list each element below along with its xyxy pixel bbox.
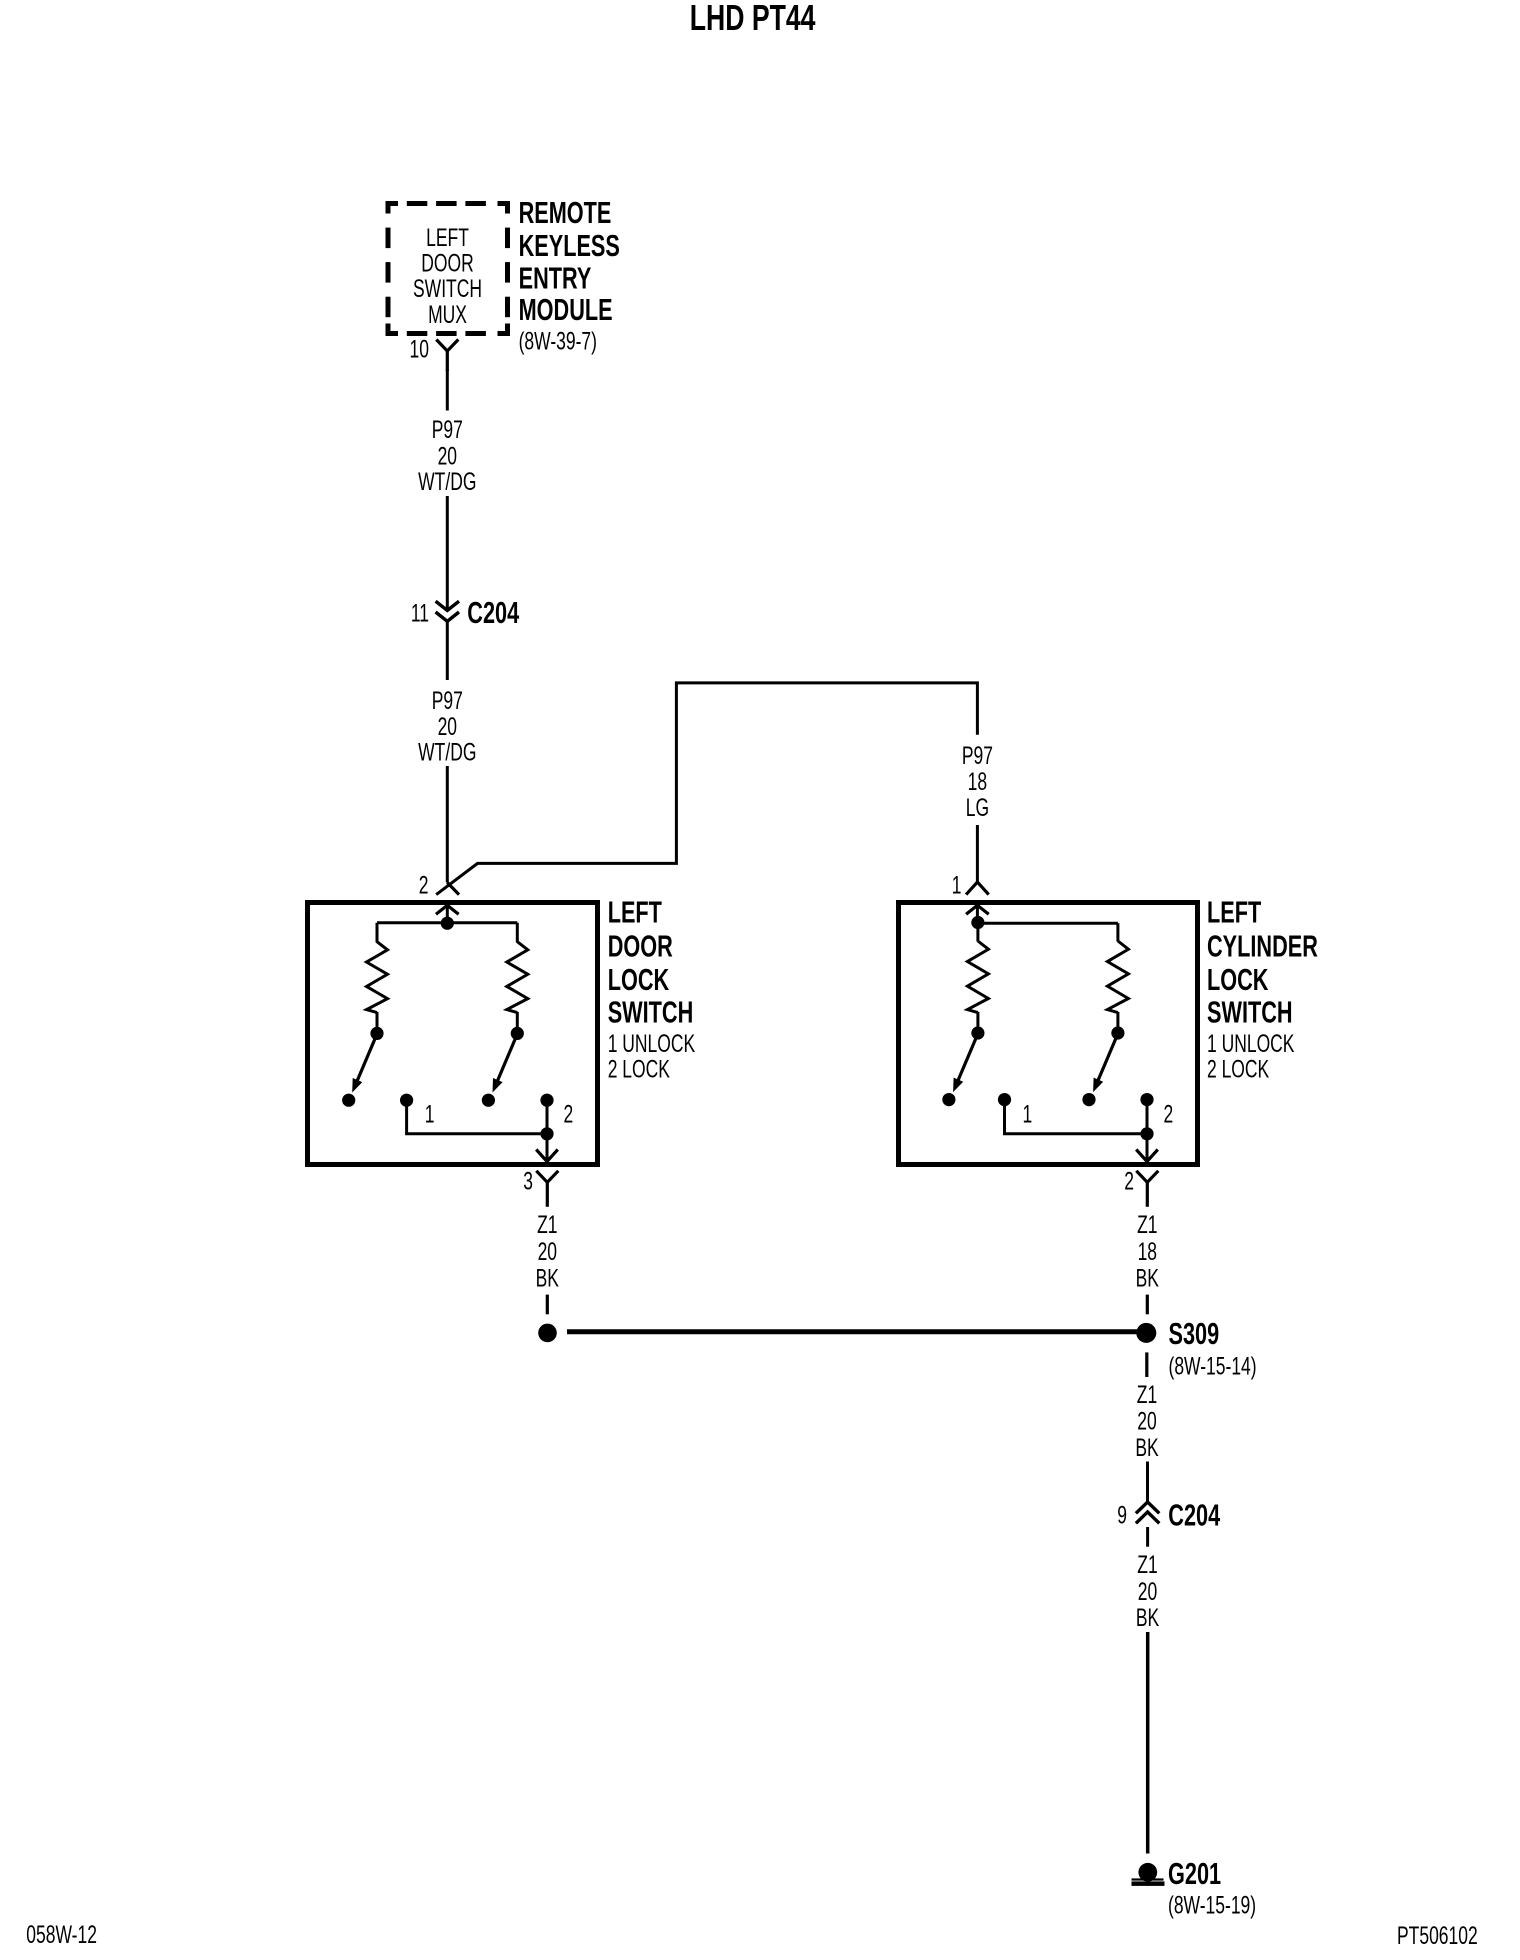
svg-text:CYLINDER: CYLINDER [1207,929,1318,964]
svg-text:2: 2 [1124,1166,1134,1195]
wire P97 below label to C204 [446,496,449,610]
pin 1 internal terminal (chevron + stub) [966,905,989,918]
contact 1 terminal dot (right box) [998,1093,1011,1106]
svg-text:LEFT: LEFT [426,223,469,252]
inline connector C204 pin 11 [411,595,519,630]
svg-text:20: 20 [538,1237,557,1266]
node: splice S309 [1136,1323,1156,1343]
node: pin 2 junction (right box) [1140,1127,1153,1140]
svg-text:P97: P97 [962,741,993,770]
svg-text:20: 20 [438,712,457,741]
svg-text:11: 11 [411,598,429,627]
svg-text:Z1: Z1 [537,1210,557,1239]
internal wire common bus (right box) [978,922,1118,925]
wire label Z1 20 BK (bottom) [1136,1550,1160,1632]
wire Z1 to C204 pin 9 [1146,1462,1149,1502]
svg-text:18: 18 [968,767,987,796]
inline connector C204 pin 9 [1117,1497,1220,1532]
svg-text:Z1: Z1 [1137,1210,1157,1239]
node: left resistor lower junction [370,1027,383,1040]
switch wiper right (left box) [493,1034,518,1093]
contact 1 terminal dot (left box) [400,1094,413,1107]
svg-text:Z1: Z1 [1137,1380,1157,1409]
svg-text:WT/DG: WT/DG [418,737,476,766]
node: common junction right switch [971,916,984,929]
svg-text:SWITCH: SWITCH [608,995,694,1030]
contact dot (wiper rest, left, right box) [942,1093,955,1106]
label G201 (8W-15-19) [1168,1856,1256,1919]
title LHD PT44 [690,0,816,38]
svg-text:1: 1 [1023,1099,1033,1128]
svg-text:LG: LG [966,793,989,822]
svg-text:MUX: MUX [428,300,467,329]
left cylinder lock switch box [899,903,1198,1165]
svg-text:(8W-15-19): (8W-15-19) [1168,1890,1256,1919]
label: LEFT DOOR LOCK SWITCH legend [608,895,696,1083]
pin 1 of left cylinder lock switch [952,871,989,900]
wire P97 pin10 to C204 [446,369,449,411]
wire Z1 below S309 stub [1145,1352,1148,1377]
pin 2 internal terminal (chevron + stub) [436,905,459,918]
ground G201 symbol [1132,1863,1165,1886]
svg-text:BK: BK [1136,1263,1160,1292]
switch wiper left (left box) [352,1034,377,1093]
svg-text:KEYLESS: KEYLESS [519,228,620,263]
wire label Z1 20 BK (below S309) [1135,1380,1159,1462]
svg-text:2: 2 [1164,1099,1174,1128]
pin 10 of keyless module [410,334,459,371]
wire P97 below C204 [446,622,449,681]
switch wiper left (right box) [953,1034,978,1093]
svg-text:2 LOCK: 2 LOCK [1207,1054,1270,1083]
wire label Z1 20 BK (left) [536,1210,560,1292]
svg-text:ENTRY: ENTRY [519,261,592,296]
internal wire common bus (left box) [377,921,517,924]
svg-text:MODULE: MODULE [519,292,613,327]
wire label P97 20 WT/DG (upper) [418,415,476,496]
node: splice junction left [538,1324,557,1343]
svg-text:LOCK: LOCK [608,962,670,997]
svg-text:058W-12: 058W-12 [26,1920,97,1949]
wire: splice bus S309 [567,1329,1140,1334]
svg-text:9: 9 [1117,1500,1127,1529]
resistor right (lock) left box [507,923,528,1028]
internal wire contact1 to pin3 (left box) [407,1100,547,1134]
svg-text:G201: G201 [1168,1856,1221,1891]
wire label P97 18 LG [962,741,993,822]
svg-text:1: 1 [425,1099,435,1128]
svg-text:LEFT: LEFT [608,895,663,930]
svg-text:2: 2 [564,1099,574,1128]
svg-text:BK: BK [536,1263,560,1292]
switch wiper right (right box) [1093,1034,1118,1093]
svg-text:LHD PT44: LHD PT44 [690,0,816,38]
internal wire contact to pin 2 exit (right box) [1136,1100,1158,1162]
contact dot (wiper rest, right, left box) [482,1094,495,1107]
pin 2 of left door lock switch [419,871,459,900]
svg-text:P97: P97 [432,415,463,444]
footer sheet number 058W-12 [26,1920,97,1949]
node: left resistor lower junction (right box) [971,1026,984,1039]
contact dot (wiper rest, right, right box) [1082,1093,1095,1106]
svg-text:Z1: Z1 [1137,1550,1157,1579]
internal wire contact1 to pin2 (right box) [1005,1100,1148,1134]
left door lock switch box [308,903,598,1165]
resistor right (lock) right box [1107,923,1128,1028]
svg-text:LOCK: LOCK [1207,962,1269,997]
svg-text:1: 1 [952,871,962,900]
svg-text:DOOR: DOOR [608,929,673,964]
node: pin 3 junction (left box) [540,1127,553,1140]
resistor left (unlock) left box [367,923,388,1028]
label: REMOTE KEYLESS ENTRY MODULE (8W-39-7) [519,195,620,355]
svg-text:REMOTE: REMOTE [519,195,612,230]
resistor left (unlock) right box [967,923,988,1029]
svg-text:2 LOCK: 2 LOCK [608,1054,671,1083]
node: right resistor lower junction (right box) [1111,1026,1124,1039]
svg-text:P97: P97 [432,686,463,715]
label 1 (left box) [425,1099,435,1128]
svg-text:BK: BK [1135,1433,1159,1462]
svg-text:WT/DG: WT/DG [418,467,476,496]
svg-text:SWITCH: SWITCH [1207,995,1293,1030]
wire P97 18 LG into cylinder switch [976,825,979,882]
wire Z1 below C204 [1146,1527,1149,1547]
label: LEFT CYLINDER LOCK SWITCH legend [1207,895,1318,1083]
svg-text:PT506102: PT506102 [1397,1921,1478,1950]
svg-text:C204: C204 [467,595,519,630]
svg-text:(8W-15-14): (8W-15-14) [1169,1351,1257,1380]
svg-text:3: 3 [523,1166,533,1195]
node: common junction left switch [441,917,454,930]
svg-text:LEFT: LEFT [1207,895,1262,930]
wire branch P97 to right (node to cylinder switch) [436,683,977,895]
svg-text:10: 10 [410,334,429,363]
footer drawing number PT506102 [1397,1921,1478,1950]
label 2 (right box) [1164,1099,1174,1128]
contact dot (wiper rest, left) [342,1094,355,1107]
svg-text:2: 2 [419,871,429,900]
module: LEFT DOOR SWITCH MUX (dashed box) [386,201,511,336]
wire Z1 to ground G201 [1146,1632,1150,1854]
label S309 (8W-15-14) [1169,1316,1257,1380]
svg-text:BK: BK [1136,1603,1160,1632]
wire P97 into left door lock switch [446,766,449,883]
contact 2 terminal dot (left box) [540,1094,553,1107]
wire label Z1 18 BK (right) [1136,1210,1160,1292]
contact 2 terminal dot (right box) [1140,1093,1153,1106]
svg-text:20: 20 [1137,1406,1156,1435]
wire Z1 18 stub to splice S309 [1146,1295,1149,1315]
svg-text:18: 18 [1138,1237,1157,1266]
svg-text:C204: C204 [1168,1497,1220,1532]
label 1 (right box) [1023,1099,1033,1128]
pin 3 of left door lock switch [523,1166,558,1206]
label 2 (left box) [564,1099,574,1128]
internal wire pin2 contact to pin 3 exit [536,1100,558,1162]
wire label P97 20 WT/DG (lower) [418,686,476,767]
svg-text:20: 20 [1138,1577,1157,1606]
node: right resistor lower junction (left box) [511,1027,524,1040]
pin 2 of left cylinder lock switch (bottom) [1124,1166,1158,1206]
svg-text:(8W-39-7): (8W-39-7) [519,326,597,355]
wire Z1 stub to splice (left) [546,1295,549,1315]
svg-text:S309: S309 [1169,1316,1220,1351]
